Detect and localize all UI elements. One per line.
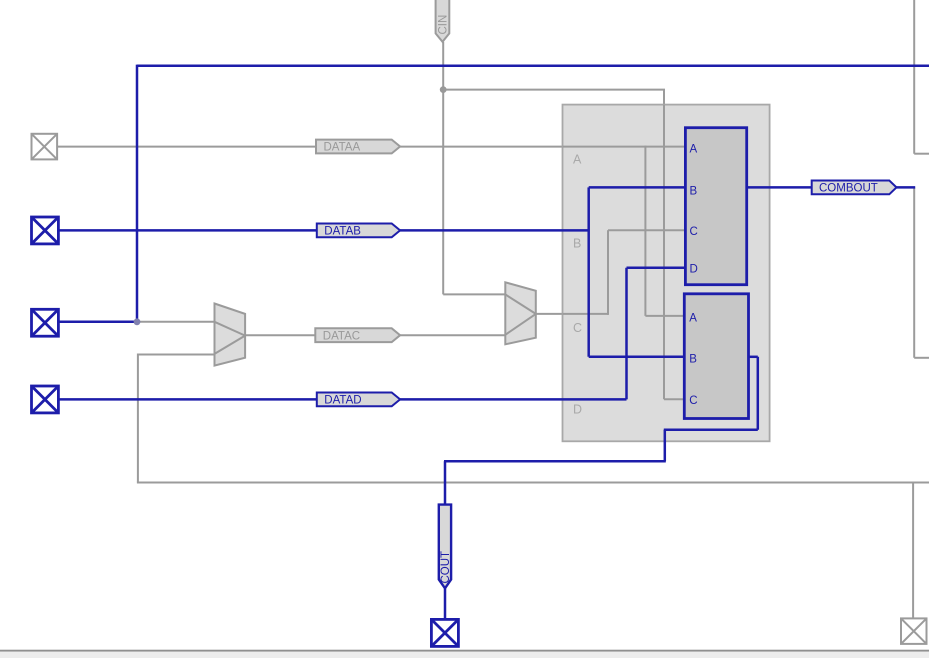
svg-text:B: B <box>690 186 698 198</box>
svg-text:B: B <box>689 353 697 365</box>
svg-text:C: C <box>689 395 697 407</box>
wire right-edge net vertical x=914.2 top <box>913 0 915 154</box>
svg-text:A: A <box>690 143 698 155</box>
wire net DATAD vertical x=626.5 <box>625 268 628 400</box>
svg-text:COMBOUT: COMBOUT <box>819 183 878 195</box>
wire COUT net down x=757.8 <box>757 357 760 430</box>
wire feedback vertical x=137.9 <box>137 354 139 483</box>
pin COUT <box>439 505 452 589</box>
port COUT output <box>431 619 458 646</box>
wire net DATAA stub to LUT F1 pin A <box>645 315 684 317</box>
port DATAC input <box>32 309 59 336</box>
mux M2 <box>505 282 536 344</box>
wire mux M2 riser over block <box>607 230 609 315</box>
wire net DATAD y=399.4 <box>58 398 626 401</box>
wire mux M2 output over block <box>563 313 609 315</box>
wire net DATAD stub to LUT F0 pin D <box>627 267 686 270</box>
wire net CIN vertical over block <box>663 105 665 400</box>
svg-text:C: C <box>690 226 698 238</box>
wire net CIN branch horizontal y=89.6 <box>443 89 665 91</box>
wire mux M1 output to DATAC label <box>245 334 316 336</box>
port DATAD input <box>32 386 59 413</box>
wire net DATAA branch vertical over block <box>644 146 646 316</box>
wire selected net vertical x=137 <box>136 65 139 322</box>
wire net DATAB vertical x=588.7 <box>587 187 590 356</box>
port DATAA input <box>32 134 58 160</box>
wire net DATAB y=230.4 <box>58 229 588 232</box>
wire net DATAB stub to LUT F0 pin B <box>589 186 686 189</box>
node junction dot DATAC net <box>134 318 141 325</box>
svg-text:D: D <box>690 264 698 276</box>
wire stub to LUT F0 pin C y=230.2 <box>608 229 685 231</box>
net label COMBOUT <box>812 181 897 195</box>
mux M1 <box>215 304 246 366</box>
wire net CIN branch vertical x=664 <box>663 90 665 400</box>
wire net CIN stub to LUT F1 pin C <box>664 398 684 400</box>
wire COUT label to port <box>444 588 447 619</box>
wire mux M2 output riser x=608 <box>607 230 609 315</box>
net label DATAA <box>316 140 400 154</box>
svg-text:C: C <box>573 321 582 335</box>
svg-text:COUT: COUT <box>440 551 452 584</box>
wire COMBOUT label to right net <box>897 186 916 189</box>
wire port DATAC to junction y=321.8 <box>58 321 137 324</box>
net label DATAD <box>317 393 400 407</box>
wire COUT net left y=429.7 <box>664 428 758 431</box>
logic cell block LCCOMB <box>563 105 770 442</box>
wire COUT net down x=664.8 <box>664 430 667 462</box>
net label DATAC <box>315 328 400 342</box>
node CIN junction dot <box>440 86 447 93</box>
wire drop to bottom-right port x=913.1 <box>912 483 914 619</box>
wire net CIN main vertical x=443.2 <box>442 42 444 295</box>
wire net DATAA stub to LUT F1 pin A over block <box>645 315 684 317</box>
wire COMBOUT continuation vertical x=914.2 <box>913 187 915 357</box>
wire COMBOUT continuation exit y=357.8 <box>914 357 929 359</box>
pin CIN <box>436 0 450 42</box>
svg-text:DATAC: DATAC <box>323 330 360 342</box>
wire COUT net left y=461.2 <box>444 460 666 463</box>
port bottom-right <box>901 618 927 644</box>
wire net DATAB stub to LUT F1 pin B <box>589 356 685 359</box>
wire LUT F0 output to COMBOUT label <box>747 186 812 189</box>
wire net DATAA over block <box>563 146 686 148</box>
svg-text:DATAA: DATAA <box>324 142 361 154</box>
wire net DATAA: port to LUT F0 pin A, y=146.6 <box>57 146 685 148</box>
port DATAB input <box>32 217 59 244</box>
wire right-edge net exit y=153.7 <box>914 153 929 155</box>
wire mux M1 top input y=321.8 <box>137 321 215 323</box>
net label DATAB <box>317 224 400 238</box>
svg-text:D: D <box>573 403 582 417</box>
svg-text:DATAB: DATAB <box>324 226 361 238</box>
svg-text:CIN: CIN <box>438 15 450 35</box>
svg-text:DATAD: DATAD <box>324 395 361 407</box>
wire net DATAA branch vertical x=645.4 <box>644 146 646 316</box>
wire net CIN to mux M2 top input y=294.4 <box>443 293 505 295</box>
wire COUT net down to label x=445 <box>444 461 447 504</box>
wire net CIN stub over block <box>664 398 684 400</box>
wire DATAC label to mux M2 bottom input <box>400 334 505 336</box>
wire mux M1 bottom input y=354.5 <box>138 354 215 356</box>
svg-text:A: A <box>689 312 697 324</box>
LUT F1 (3-input) <box>684 294 748 419</box>
wire mux M2 output y=313.9 <box>536 313 608 315</box>
wire selected net top rail y=65.8 <box>137 65 929 68</box>
svg-text:B: B <box>573 237 581 251</box>
wire LUT F1 output exit <box>749 356 758 359</box>
svg-text:A: A <box>573 153 582 167</box>
wire stub to LUT F0 pin C over block <box>608 229 685 231</box>
bottom panel divider <box>0 650 929 658</box>
LUT F0 (4-input) <box>685 128 746 285</box>
wire feedback horizontal y=482.5 <box>137 482 929 484</box>
